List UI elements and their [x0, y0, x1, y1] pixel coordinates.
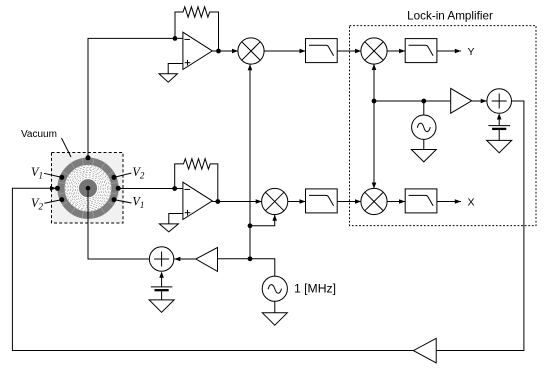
oscillator OSC1 (1 MHz) [250, 259, 287, 302]
label V2 (lower left) [31, 196, 62, 212]
node: U2 output [215, 199, 220, 204]
resistor R1 (U1 feedback) [175, 7, 219, 51]
ground (OSC2) [411, 139, 436, 162]
wire: M2 to filter F2 [387, 49, 405, 54]
node: U1 output [216, 49, 221, 54]
sensor center electrode [79, 179, 97, 197]
svg-text:1 [MHz]: 1 [MHz] [294, 282, 336, 296]
wire: U1 output to mixer M1 [212, 49, 238, 54]
wire: A2 to summer S2 [472, 99, 487, 104]
amplifier A1 (drives summer S1) [196, 248, 218, 272]
wire: branch to M4 bottom [250, 215, 277, 226]
lock-in amplifier enclosure (dashed box) [350, 26, 537, 226]
label V1 (upper left) [31, 165, 62, 181]
oscillator OSC2 (lock-in reference) [412, 101, 436, 139]
offset source B2 (battery) [488, 113, 510, 129]
wire: M1 to filter F1 [264, 49, 306, 54]
svg-text:Vacuum: Vacuum [21, 129, 57, 140]
low-pass filter F2 [405, 39, 437, 63]
sensor terminal: left [55, 186, 60, 191]
wire: sensor top to op-amp U1 inverting input [88, 38, 183, 157]
wire: A1 to summer S1 [174, 257, 196, 262]
node: U1 inverting input [173, 36, 178, 41]
low-pass filter F1 [306, 39, 338, 63]
sensor terminal: upper-right [112, 175, 117, 180]
wire: reference tap to amplifier A2 [374, 100, 451, 102]
mixer M3 [361, 188, 387, 214]
wire: F4 to output X [437, 199, 461, 204]
wire: sensor right to op-amp U2 inverting input [118, 188, 183, 190]
wire: M3 to filter F4 [387, 199, 405, 204]
sensor ring segment gaps [58, 158, 119, 219]
resistor R2 (U2 feedback) [175, 159, 218, 202]
label Vacuum [21, 129, 71, 157]
low-pass filter F4 [405, 189, 437, 213]
svg-text:Y: Y [468, 46, 475, 58]
ground (B1) [149, 291, 174, 312]
node: U2 inverting input [172, 186, 177, 191]
wire: sensor center down and right to summer S1 [88, 188, 150, 259]
wire: F2 to output Y [437, 49, 461, 54]
node: oscillator OSC2 tap [421, 99, 426, 104]
wire: F3 to mixer M3 [337, 199, 361, 204]
sensor terminal: lower-left [59, 197, 64, 202]
amplifier A3 (feedback buffer, bottom) [413, 338, 436, 363]
ground (U1 non-inverting input) [159, 64, 183, 83]
node: reference tap in lock-in [372, 99, 377, 104]
label V2 (upper right) [114, 165, 145, 181]
summer S1 [149, 247, 173, 271]
sensor terminal: upper-left [59, 175, 64, 180]
mixer M2 [361, 38, 387, 64]
wire: F1 to mixer M2 [337, 49, 361, 54]
wire: reference vertical between M2 and M3 [372, 64, 377, 189]
ground (U2 non-inverting input) [159, 214, 183, 232]
summer S2 [487, 89, 512, 114]
wire: S2 output to feedback (right edge down) [436, 101, 524, 351]
node: oscillator OSC1 junction [248, 256, 253, 261]
mixer M1 [238, 38, 264, 64]
label V1 (lower right) [114, 195, 144, 211]
sensor outer ring electrode [57, 158, 118, 219]
sensor terminal: lower-right [112, 197, 117, 202]
amplifier A2 [451, 88, 472, 113]
wire: main reference vertical (oscillator junction up to M1) [248, 64, 253, 259]
sensor terminal: right [116, 186, 121, 191]
low-pass filter F3 [306, 189, 338, 213]
op-amp U1 [183, 32, 212, 69]
wire: A3 output to sensor left terminal [12, 186, 413, 351]
wire: M4 to filter F3 [288, 199, 306, 204]
svg-text:X: X [468, 196, 475, 208]
wire: OSC1 junction to amplifier A1 input [218, 258, 251, 260]
ground (OSC1) [262, 301, 287, 325]
wire: U2 output to mixer M4 [212, 199, 262, 204]
op-amp U2 [183, 182, 212, 219]
sensor inner grooves (concentric dashed rings) [66, 166, 111, 211]
vacuum enclosure (dashed box) [52, 153, 124, 224]
offset source B1 (battery) [151, 272, 173, 291]
ground (B2) [487, 130, 512, 153]
svg-text:Lock-in Amplifier: Lock-in Amplifier [407, 10, 493, 23]
sensor terminal: center [86, 186, 91, 191]
mixer M4 [262, 188, 288, 214]
sensor terminal: top [86, 155, 91, 160]
node: branch to M4 [248, 223, 253, 228]
